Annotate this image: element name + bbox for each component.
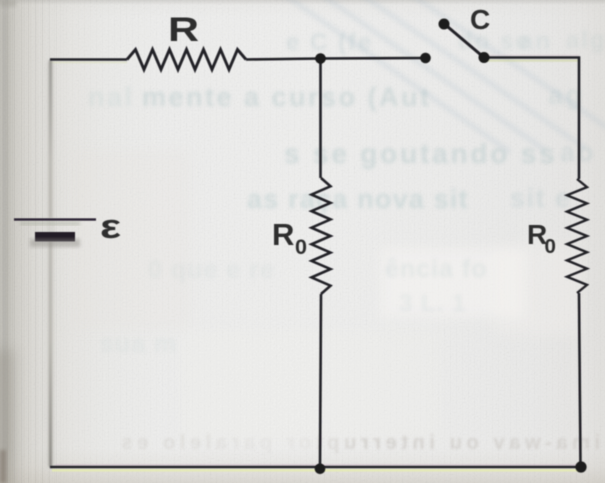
svg-text:s se goutando ss: s se goutando ss <box>284 138 558 169</box>
svg-text:nal: nal <box>88 82 135 112</box>
svg-text:e C (fe: e C (fe <box>286 29 373 56</box>
svg-text:0: 0 <box>545 235 556 258</box>
svg-text:ε: ε <box>100 208 121 246</box>
svg-text:alg: alg <box>566 27 605 54</box>
svg-text:as raça nova sit: as raça nova sit <box>247 184 469 214</box>
svg-text:sit e: sit e <box>510 183 572 213</box>
svg-text:ência fo: ência fo <box>385 255 487 283</box>
svg-text:C: C <box>470 4 490 35</box>
svg-text:mente a curso (Aut: mente a curso (Aut <box>142 82 432 112</box>
svg-text:an: an <box>520 28 552 55</box>
svg-text:3 L. 1: 3 L. 1 <box>399 290 466 317</box>
svg-text:sua m: sua m <box>100 330 177 358</box>
svg-text:0: 0 <box>295 235 307 259</box>
svg-text:ima-wav ou interruptor paralel: ima-wav ou interruptor paralelo es <box>117 432 600 454</box>
svg-text:R: R <box>272 217 294 252</box>
svg-text:0 que e re: 0 que e re <box>148 256 275 284</box>
svg-text:R: R <box>168 11 199 49</box>
